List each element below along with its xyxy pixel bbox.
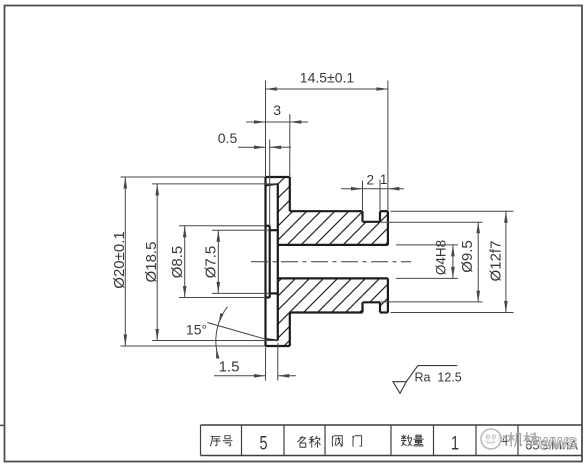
svg-text:1: 1 (451, 431, 459, 454)
dimension 0.5 (218, 130, 291, 226)
svg-text:2: 2 (367, 173, 375, 188)
dimensions 2 and 1 (341, 172, 404, 210)
svg-text:Ra 12.5: Ra 12.5 (415, 371, 462, 385)
svg-text:5: 5 (259, 431, 267, 454)
table text 序号 (210, 436, 232, 446)
angle dimension 15° (186, 307, 271, 359)
table text 5 (259, 431, 267, 454)
watermark 机械WWS logo (481, 429, 578, 453)
dimension 3 (246, 102, 308, 176)
dimension Ø12f7 (391, 211, 514, 312)
frame tick mark left (0, 424, 5, 426)
svg-text:WWS: WWS (538, 436, 578, 453)
svg-text:Ø20±0.1: Ø20±0.1 (111, 231, 128, 288)
svg-text:14.5±0.1: 14.5±0.1 (300, 70, 355, 86)
svg-text:1.5: 1.5 (219, 359, 240, 376)
svg-text:Ø4H8: Ø4H8 (433, 240, 448, 275)
surface finish symbol Ra 12.5 (393, 366, 462, 394)
svg-text:Ø7.5: Ø7.5 (203, 246, 220, 279)
table text 阀 门 (332, 436, 361, 447)
centerline (251, 261, 411, 263)
dimension Ø20±0.1 (111, 177, 266, 346)
table text 1 (451, 431, 459, 454)
dimension 14.5±0.1 (266, 70, 388, 211)
dimension Ø7.5 (203, 230, 270, 293)
svg-text:0.5: 0.5 (218, 130, 238, 146)
table text 名称 (298, 436, 321, 447)
svg-text:Ø18.5: Ø18.5 (143, 242, 160, 283)
dimension Ø18.5 (143, 184, 278, 341)
table text 65SiMnA (525, 438, 578, 453)
dimension Ø4H8 (396, 240, 458, 279)
title block table grid (201, 425, 583, 456)
svg-text:3: 3 (273, 102, 281, 118)
valve part outline (266, 177, 388, 346)
dimension Ø9.5 (381, 222, 483, 302)
section hatching upper (273, 55, 393, 371)
svg-text:Ø12f7: Ø12f7 (487, 241, 504, 282)
svg-text:Ø9.5: Ø9.5 (459, 240, 476, 273)
svg-text:Ø8.5: Ø8.5 (169, 246, 186, 279)
dimension Ø8.5 (169, 226, 266, 298)
section hatching lower (273, 153, 393, 464)
svg-text:1: 1 (380, 172, 388, 187)
table text 数量 (401, 435, 423, 446)
svg-text:15°: 15° (186, 322, 207, 338)
dimension 1.5 (214, 343, 296, 381)
table text 材料 (485, 435, 507, 445)
